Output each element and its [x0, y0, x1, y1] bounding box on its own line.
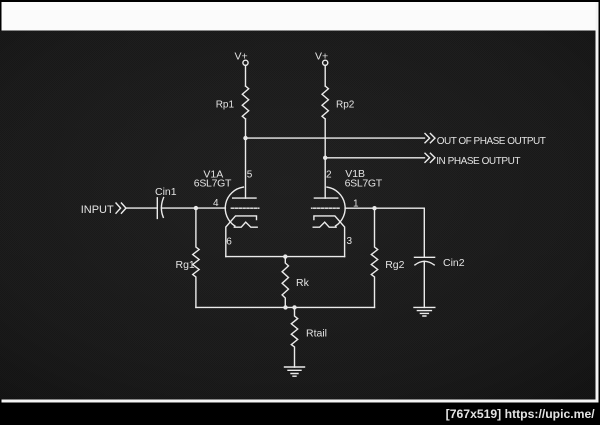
svg-text:V+: V+ — [235, 51, 248, 63]
resistor Rk (with leads) — [282, 257, 288, 308]
svg-text:4: 4 — [213, 198, 219, 209]
svg-text:6SL7GT: 6SL7GT — [345, 177, 383, 189]
svg-text:Rg1: Rg1 — [176, 259, 195, 271]
V+ terminal 2 (circle) — [323, 60, 328, 65]
photo white frame: bottom edge — [2, 400, 599, 403]
capacitor Cin2 — [415, 257, 435, 265]
resistor Rg1 (with leads) — [193, 208, 199, 307]
wire Cin1 to V1A grid — [162, 207, 226, 209]
svg-text:5: 5 — [247, 170, 253, 181]
resistor Rp2 — [322, 86, 328, 119]
wire bottom bus Rg1-Rg2 — [196, 306, 375, 308]
svg-text:Rg2: Rg2 — [385, 259, 404, 271]
junction node: input/Rg1 — [194, 206, 198, 210]
ground (below Rtail) — [285, 367, 305, 376]
junction node: cathode bus / Rk — [283, 254, 287, 258]
out-of-phase output arrow chevrons — [425, 134, 435, 143]
svg-text:IN PHASE OUTPUT: IN PHASE OUTPUT — [436, 156, 520, 167]
junction node: out-of-phase tap — [243, 136, 247, 140]
svg-text:3: 3 — [347, 236, 353, 247]
ground (below Cin2) — [414, 307, 435, 316]
junction node: Rtail top — [292, 305, 296, 309]
photo white frame: top band — [2, 2, 599, 31]
svg-text:Rtail: Rtail — [306, 328, 327, 340]
V+ terminal 1 (circle) — [243, 60, 248, 65]
photo white frame: right edge — [596, 2, 599, 403]
wire Rp1 to V1A plate — [245, 119, 247, 198]
triode V1A (envelope arc, plate bar, grid dashes, cathode) — [225, 187, 259, 257]
wire in-phase output line — [325, 157, 424, 159]
capacitor Cin1 — [157, 198, 163, 219]
junction node: Rg2 tap — [372, 206, 376, 210]
wire Rp2 to V1B plate — [324, 119, 326, 198]
svg-text:2: 2 — [326, 170, 332, 181]
triode V1B (mirror of V1A) — [312, 187, 346, 257]
wire out-of-phase output line — [246, 137, 425, 139]
svg-text:Cin2: Cin2 — [443, 257, 465, 269]
in-phase output arrow chevrons — [425, 153, 435, 162]
wire cathode bus V1A-V1B — [226, 256, 345, 258]
wire V1B grid to Cin2 top — [345, 208, 424, 257]
wire V+1 to Rp1 — [245, 65, 247, 86]
resistor Rp1 — [242, 86, 248, 119]
junction node: in-phase tap — [323, 156, 327, 160]
junction node: Rk bottom — [283, 305, 287, 309]
wire Cin2 to ground — [423, 261, 425, 307]
svg-text:[767x519] https://upic.me/: [767x519] https://upic.me/ — [446, 407, 596, 421]
resistor Rg2 (with leads) — [371, 208, 377, 307]
svg-text:OUT OF PHASE OUTPUT: OUT OF PHASE OUTPUT — [437, 136, 546, 147]
svg-text:Rp2: Rp2 — [336, 100, 355, 111]
input terminal chevrons — [116, 203, 126, 213]
svg-text:Cin1: Cin1 — [155, 186, 177, 198]
svg-text:Rk: Rk — [296, 277, 310, 289]
wire input to Cin1 — [126, 207, 157, 209]
resistor Rtail (with leads) — [291, 307, 297, 367]
svg-text:V+: V+ — [315, 51, 328, 63]
svg-text:INPUT: INPUT — [81, 204, 114, 216]
svg-text:6: 6 — [226, 236, 232, 247]
svg-text:6SL7GT: 6SL7GT — [194, 177, 232, 189]
svg-text:Rp1: Rp1 — [216, 100, 235, 111]
svg-text:1: 1 — [353, 199, 359, 210]
wire V+2 to Rp2 — [324, 65, 326, 86]
